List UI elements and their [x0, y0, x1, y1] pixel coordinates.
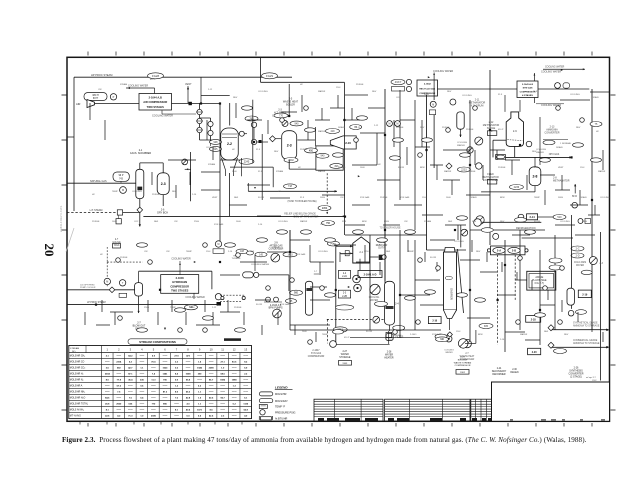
svg-text:2-12: 2-12: [212, 307, 217, 309]
svg-text:2.2: 2.2: [244, 374, 248, 376]
svg-text:95 F: 95 F: [342, 221, 347, 223]
svg-text:2-3: 2-3: [600, 262, 604, 265]
svg-text:AIR: AIR: [76, 102, 80, 106]
svg-text:——: ——: [220, 392, 225, 394]
svg-text:SYN GAS: SYN GAS: [280, 303, 290, 306]
svg-text:1241: 1241: [163, 373, 169, 376]
svg-text:PURGE: PURGE: [300, 149, 308, 151]
svg-text:150#: 150#: [456, 331, 461, 333]
svg-text:2-1647: 2-1647: [312, 350, 320, 352]
svg-text:2-1641 A-E: 2-1641 A-E: [522, 83, 534, 86]
svg-text:95 F: 95 F: [300, 197, 305, 199]
svg-text:99 P: 99 P: [119, 175, 124, 177]
svg-text:——: ——: [209, 374, 214, 376]
svg-text:3.3: 3.3: [175, 362, 179, 364]
svg-text:57.5: 57.5: [117, 386, 122, 388]
svg-text:83.5: 83.5: [232, 362, 237, 364]
svg-text:150#: 150#: [580, 167, 585, 169]
svg-text:H2: H2: [596, 131, 600, 133]
svg-text:27.1: 27.1: [221, 362, 226, 364]
svg-text:2-C: 2-C: [576, 247, 580, 250]
svg-text:PURGE: PURGE: [468, 171, 476, 173]
svg-text:305: 305: [484, 325, 489, 328]
svg-text:REV: REV: [564, 334, 569, 336]
svg-text:2304: 2304: [105, 373, 111, 376]
svg-text:COMPRESSOR: COMPRESSOR: [308, 356, 325, 358]
svg-text:2-1642: 2-1642: [424, 83, 432, 86]
svg-text:940: 940: [295, 122, 300, 125]
svg-text:REBOILER: REBOILER: [376, 245, 388, 247]
svg-text:——: ——: [220, 386, 225, 388]
svg-text:11: 11: [221, 347, 224, 351]
svg-text:(2 STAGE): (2 STAGE): [570, 376, 582, 379]
svg-text:450: 450: [309, 149, 314, 152]
svg-text:6.0: 6.0: [187, 416, 191, 418]
svg-text:DRY BOX: DRY BOX: [157, 212, 168, 215]
svg-text:——: ——: [151, 386, 156, 388]
svg-text:REGEN: REGEN: [510, 372, 519, 374]
svg-text:66.3: 66.3: [186, 392, 191, 394]
svg-text:1.0: 1.0: [198, 398, 202, 400]
svg-text:40.5: 40.5: [186, 409, 191, 412]
svg-text:——: ——: [220, 410, 225, 412]
svg-text:895: 895: [163, 404, 167, 406]
svg-text:6.2: 6.2: [233, 404, 237, 406]
svg-text:PURGE: PURGE: [272, 247, 280, 249]
svg-text:TEMP: TEMP: [112, 191, 118, 193]
svg-text:——: ——: [140, 362, 145, 364]
svg-text:FLOW: FLOW: [366, 331, 372, 333]
svg-text:3: 3: [130, 347, 132, 351]
svg-text:2-2A: 2-2A: [342, 275, 347, 278]
svg-text:PURGE: PURGE: [356, 84, 364, 86]
svg-text:——: ——: [163, 356, 168, 358]
svg-text:DRAIN: DRAIN: [338, 126, 345, 129]
svg-text:2: 2: [118, 347, 120, 351]
svg-text:AIR COMPRESSOR: AIR COMPRESSOR: [143, 100, 167, 104]
svg-text:8.0: 8.0: [106, 380, 110, 382]
svg-text:71.3: 71.3: [128, 416, 133, 418]
svg-text:STEAM: STEAM: [424, 220, 431, 223]
svg-text:FLOW: FLOW: [256, 304, 262, 306]
svg-text:PURGE: PURGE: [152, 194, 160, 196]
svg-text:H2: H2: [378, 164, 382, 166]
svg-text:8.9: 8.9: [175, 392, 179, 394]
svg-text:WATER: WATER: [445, 351, 453, 354]
svg-text:8.4: 8.4: [175, 373, 179, 376]
svg-text:6.1: 6.1: [244, 398, 248, 400]
svg-text:REFRIGERATION: REFRIGERATION: [516, 227, 536, 230]
svg-text:COOLING WATER: COOLING WATER: [185, 296, 205, 299]
svg-text:1640: 1640: [302, 331, 307, 333]
svg-text:2-16: 2-16: [500, 339, 505, 341]
svg-text:CW: CW: [144, 251, 148, 253]
svg-text:95.9: 95.9: [186, 380, 191, 382]
svg-text:——: ——: [151, 410, 156, 412]
svg-text:REV: REV: [233, 97, 238, 99]
svg-text:2.1: 2.1: [106, 356, 110, 358]
svg-text:2-2B: 2-2B: [342, 296, 347, 298]
svg-text:DRAIN: DRAIN: [580, 196, 587, 199]
svg-text:87.1: 87.1: [128, 374, 133, 376]
svg-text:5.6: 5.6: [198, 416, 202, 418]
svg-text:REV: REV: [532, 151, 537, 153]
svg-text:2-16: 2-16: [228, 251, 233, 253]
svg-text:——: ——: [105, 362, 110, 364]
svg-text:——: ——: [186, 368, 191, 370]
svg-text:410 P: 410 P: [498, 129, 504, 131]
svg-text:——: ——: [232, 392, 237, 394]
svg-text:M: M: [106, 281, 108, 284]
svg-text:SYN GAS: SYN GAS: [311, 352, 322, 355]
svg-text:PRESSURE PSIG: PRESSURE PSIG: [275, 411, 295, 414]
svg-text:WATER: WATER: [520, 333, 528, 336]
svg-text:SYN GAS: SYN GAS: [214, 223, 224, 226]
svg-text:COOLING WATER: COOLING WATER: [251, 263, 270, 266]
svg-text:WATER: WATER: [385, 353, 393, 356]
svg-text:——: ——: [163, 386, 168, 388]
svg-text:1640: 1640: [446, 197, 451, 199]
svg-text:22.6: 22.6: [105, 416, 110, 418]
svg-text:WASTE STREAM: WASTE STREAM: [454, 361, 472, 364]
svg-text:1640: 1640: [236, 221, 241, 223]
svg-text:3.6: 3.6: [106, 368, 110, 370]
svg-text:1963: 1963: [342, 363, 348, 365]
svg-text:NH3 GAS: NH3 GAS: [549, 153, 560, 156]
svg-text:——: ——: [243, 356, 248, 358]
svg-text:2-3: 2-3: [161, 182, 166, 186]
svg-text:M: M: [218, 244, 220, 246]
svg-text:M: M: [122, 189, 124, 192]
svg-text:MOLS/HR: MOLS/HR: [275, 393, 287, 396]
svg-text:——: ——: [232, 368, 237, 370]
svg-text:SECONDARY: SECONDARY: [492, 370, 507, 373]
svg-text:DWG: DWG: [320, 197, 325, 199]
svg-text:0.6: 0.6: [140, 386, 144, 388]
svg-text:PURGE: PURGE: [234, 307, 242, 309]
svg-text:TURBINE: TURBINE: [231, 258, 241, 260]
svg-text:——: ——: [243, 386, 248, 388]
svg-text:40.5: 40.5: [209, 397, 214, 400]
svg-text:WATER: WATER: [457, 144, 465, 147]
svg-text:PSIG: PSIG: [144, 307, 149, 309]
svg-text:2245: 2245: [244, 160, 250, 163]
svg-text:756: 756: [326, 222, 331, 225]
svg-text:5.3: 5.3: [198, 386, 202, 388]
svg-text:718: 718: [288, 185, 293, 188]
svg-text:54.2: 54.2: [128, 355, 133, 358]
svg-text:M: M: [432, 104, 434, 106]
svg-text:27.9: 27.9: [174, 356, 179, 358]
svg-text:RECYCLE GAS: RECYCLE GAS: [419, 87, 435, 90]
svg-text:——: ——: [163, 362, 168, 364]
svg-text:2-16: 2-16: [432, 320, 437, 323]
svg-text:BFW: BFW: [362, 221, 367, 223]
svg-text:510: 510: [557, 216, 562, 219]
svg-text:TWO STAGES: TWO STAGES: [171, 289, 189, 293]
svg-text:2-27: 2-27: [342, 351, 347, 353]
svg-text:CW: CW: [340, 197, 344, 199]
svg-text:——: ——: [117, 356, 122, 358]
svg-text:4 STAGES: 4 STAGES: [522, 94, 533, 97]
svg-text:1.0: 1.0: [221, 368, 225, 370]
svg-text:2-?: 2-?: [115, 239, 119, 241]
svg-text:7: 7: [176, 347, 178, 351]
svg-text:WATER: WATER: [370, 299, 378, 302]
svg-text:——: ——: [243, 380, 248, 382]
svg-text:CONVERTER: CONVERTER: [545, 132, 560, 135]
svg-text:8.1: 8.1: [175, 410, 179, 412]
svg-text:1982: 1982: [220, 380, 226, 382]
svg-text:8: 8: [187, 347, 189, 351]
svg-text:410 P: 410 P: [344, 337, 350, 339]
svg-text:WATER: WATER: [576, 264, 584, 267]
svg-text:692: 692: [117, 368, 121, 370]
svg-text:MT % AVG: MT % AVG: [70, 415, 81, 418]
svg-text:2-20: 2-20: [532, 351, 537, 354]
svg-text:COOLING: COOLING: [462, 95, 472, 97]
svg-text:VENT: VENT: [212, 197, 218, 199]
svg-text:MOLS/HR CO₂: MOLS/HR CO₂: [70, 368, 86, 370]
svg-text:4: 4: [141, 347, 143, 351]
svg-text:FG29: FG29: [266, 74, 273, 78]
svg-text:VENT: VENT: [185, 83, 192, 86]
svg-text:100 GPH FEED: 100 GPH FEED: [80, 285, 95, 287]
svg-text:——: ——: [128, 386, 133, 388]
svg-text:TEMP: TEMP: [322, 334, 328, 336]
svg-text:——: ——: [232, 356, 237, 358]
svg-text:DWG: DWG: [558, 197, 563, 199]
svg-text:2-1641: 2-1641: [410, 334, 417, 336]
svg-text:PURGE: PURGE: [92, 221, 100, 223]
svg-text:MOLS/HR N₂: MOLS/HR N₂: [70, 380, 84, 382]
svg-text:TWO STAGES: TWO STAGES: [147, 105, 165, 109]
svg-text:REFORMER: REFORMER: [492, 374, 505, 376]
svg-text:26.8: 26.8: [105, 404, 110, 406]
svg-text:42.5: 42.5: [209, 415, 214, 418]
svg-text:2-16: 2-16: [258, 224, 263, 226]
svg-text:1.1: 1.1: [198, 404, 202, 406]
svg-text:COOLING: COOLING: [560, 221, 570, 223]
svg-text:433 P: 433 P: [395, 81, 402, 84]
svg-text:900: 900: [294, 292, 299, 295]
svg-text:2-2: 2-2: [343, 273, 347, 275]
svg-text:2030: 2030: [151, 416, 157, 418]
svg-text:2-24: 2-24: [497, 368, 502, 370]
svg-text:COOLING WATER: COOLING WATER: [433, 70, 453, 73]
svg-text:5.9: 5.9: [175, 380, 179, 382]
svg-text:CW: CW: [166, 251, 170, 253]
svg-text:——: ——: [220, 404, 225, 406]
svg-text:1.1: 1.1: [140, 368, 144, 370]
svg-text:2-B: 2-B: [512, 249, 516, 253]
svg-text:WATER: WATER: [598, 170, 606, 173]
svg-text:STEAM: STEAM: [208, 163, 215, 166]
svg-text:——: ——: [117, 398, 122, 400]
svg-text:STREAM COMPOSITIONS: STREAM COMPOSITIONS: [139, 340, 176, 344]
svg-text:2-1: 2-1: [359, 250, 363, 254]
svg-text:HP PROC STEAM: HP PROC STEAM: [91, 73, 112, 77]
svg-text:2-19: 2-19: [582, 293, 588, 296]
svg-text:12: 12: [233, 347, 236, 351]
svg-text:DRAIN: DRAIN: [470, 196, 477, 199]
svg-text:6.9: 6.9: [244, 368, 248, 370]
svg-text:0.2: 0.2: [175, 368, 179, 370]
svg-text:COOLING: COOLING: [600, 197, 610, 199]
svg-text:770: 770: [279, 114, 284, 117]
svg-text:WATER: WATER: [536, 151, 544, 154]
svg-text:FG28: FG28: [152, 74, 159, 78]
svg-text:2454: 2454: [322, 207, 328, 210]
svg-text:2-12: 2-12: [374, 125, 379, 127]
svg-text:——: ——: [243, 392, 248, 394]
svg-text:2-16: 2-16: [192, 194, 197, 196]
svg-text:1.1: 1.1: [198, 392, 202, 394]
svg-text:——: ——: [117, 374, 122, 376]
svg-text:TEMP °F: TEMP °F: [275, 406, 286, 409]
svg-text:COOLING: COOLING: [258, 91, 268, 93]
svg-text:——: ——: [209, 392, 214, 394]
svg-text:1.0: 1.0: [140, 416, 144, 418]
svg-text:2060: 2060: [116, 404, 122, 406]
svg-text:95 F: 95 F: [498, 94, 503, 96]
svg-text:——: ——: [140, 410, 145, 412]
svg-text:REV: REV: [476, 251, 481, 253]
svg-text:WATER: WATER: [318, 130, 326, 133]
svg-text:——: ——: [209, 386, 214, 388]
svg-text:940: 940: [321, 155, 326, 158]
svg-text:AMMONIA TO STORAGE: AMMONIA TO STORAGE: [573, 342, 600, 345]
svg-text:COOLING: COOLING: [206, 147, 216, 149]
svg-text:SYN GAS: SYN GAS: [296, 253, 306, 256]
svg-text:H2: H2: [300, 84, 304, 86]
svg-text:——: ——: [163, 410, 168, 412]
svg-text:1671: 1671: [197, 410, 203, 412]
svg-text:At BTU/HR: At BTU/HR: [275, 417, 288, 420]
svg-text:——: ——: [174, 404, 179, 406]
svg-text:PURGE: PURGE: [380, 197, 388, 199]
svg-text:SYN GAS: SYN GAS: [432, 333, 442, 336]
svg-text:COOLING: COOLING: [457, 142, 467, 144]
svg-text:CW: CW: [98, 89, 102, 91]
svg-text:REV: REV: [274, 151, 279, 153]
svg-text:VENT: VENT: [558, 167, 564, 169]
svg-text:MOLS/HR CH₄: MOLS/HR CH₄: [70, 356, 85, 358]
svg-text:2-A: 2-A: [497, 249, 501, 253]
svg-text:150#: 150#: [206, 251, 211, 253]
svg-text:HEATER: HEATER: [384, 356, 393, 359]
svg-text:——: ——: [128, 410, 133, 412]
svg-text:PURGE: PURGE: [338, 167, 346, 169]
svg-text:419: 419: [331, 130, 336, 133]
svg-text:35.4: 35.4: [128, 379, 133, 382]
svg-text:BFW: BFW: [500, 197, 505, 199]
svg-text:1962: 1962: [460, 372, 466, 374]
svg-text:COOLING WATER: COOLING WATER: [545, 66, 565, 69]
svg-text:——: ——: [140, 392, 145, 394]
svg-text:PUMP COOLER: PUMP COOLER: [80, 287, 96, 289]
svg-text:MOLS/HR CO: MOLS/HR CO: [70, 362, 85, 364]
svg-text:FLOW: FLOW: [258, 197, 264, 199]
svg-text:——: ——: [105, 386, 110, 388]
svg-text:SYN GAS: SYN GAS: [400, 196, 410, 199]
svg-text:7.6: 7.6: [117, 392, 121, 394]
svg-text:——: ——: [232, 398, 237, 400]
svg-text:——: ——: [209, 356, 214, 358]
svg-text:——: ——: [128, 392, 133, 394]
svg-text:NATURAL GAS: NATURAL GAS: [90, 180, 107, 183]
svg-text:2-1646: 2-1646: [176, 276, 185, 280]
svg-text:CW: CW: [404, 221, 408, 223]
svg-text:H2: H2: [298, 167, 302, 169]
svg-text:REV: REV: [372, 91, 377, 93]
svg-text:NH3: NH3: [386, 251, 391, 253]
svg-text:1058: 1058: [186, 374, 192, 376]
svg-text:WATER: WATER: [318, 90, 326, 93]
svg-text:1640: 1640: [232, 171, 237, 173]
svg-text:10: 10: [210, 347, 213, 351]
svg-text:5.2: 5.2: [129, 362, 133, 364]
svg-text:REV: REV: [447, 91, 452, 93]
svg-text:2-29: 2-29: [460, 357, 465, 359]
svg-text:4.2: 4.2: [117, 415, 121, 418]
svg-text:700: 700: [163, 380, 167, 382]
svg-text:2-1644 A,B: 2-1644 A,B: [149, 95, 162, 99]
svg-text:MOLS/HR NH₃: MOLS/HR NH₃: [70, 392, 85, 394]
svg-text:NH3: NH3: [448, 221, 453, 223]
svg-text:PURGE: PURGE: [466, 129, 474, 131]
svg-text:PURGE: PURGE: [396, 127, 404, 129]
svg-text:85.7: 85.7: [209, 380, 214, 382]
svg-text:2-2: 2-2: [227, 142, 232, 146]
svg-text:42.7: 42.7: [128, 367, 133, 370]
svg-text:77.8: 77.8: [117, 380, 122, 382]
svg-text:LEGEND: LEGEND: [275, 386, 288, 390]
svg-text:H2: H2: [92, 194, 96, 196]
svg-text:——: ——: [232, 410, 237, 412]
svg-text:1.3: 1.3: [233, 386, 237, 388]
svg-text:2-4: 2-4: [395, 302, 399, 306]
svg-text:STEAM: STEAM: [276, 170, 283, 173]
svg-text:TANK: TANK: [114, 244, 120, 247]
svg-text:——: ——: [163, 416, 168, 418]
svg-text:TEMP: TEMP: [186, 251, 192, 253]
svg-text:95 F: 95 F: [533, 91, 538, 93]
svg-text:COOLING WATER: COOLING WATER: [171, 258, 191, 261]
svg-text:908: 908: [214, 141, 219, 144]
svg-text:7.0: 7.0: [129, 398, 133, 400]
svg-text:2233: 2233: [461, 168, 467, 171]
svg-text:2.3: 2.3: [221, 416, 225, 418]
svg-text:1: 1: [107, 347, 109, 351]
svg-text:2-3: 2-3: [343, 293, 347, 295]
svg-text:2-18: 2-18: [531, 318, 537, 321]
svg-text:635: 635: [129, 404, 133, 406]
svg-text:1023: 1023: [163, 368, 169, 370]
svg-text:1640: 1640: [112, 221, 117, 223]
svg-text:WATER: WATER: [444, 170, 452, 173]
svg-text:——: ——: [117, 410, 122, 412]
svg-text:DRAIN: DRAIN: [592, 96, 599, 99]
svg-text:1945: 1945: [197, 367, 203, 370]
svg-text:BFW: BFW: [478, 334, 483, 336]
svg-text:6.4: 6.4: [140, 397, 144, 400]
svg-text:CW: CW: [174, 221, 178, 223]
svg-text:MOLS/HR H₂O: MOLS/HR H₂O: [70, 398, 86, 400]
svg-text:COOLING: COOLING: [278, 221, 288, 223]
svg-text:GASIFIER: GASIFIER: [449, 288, 452, 300]
svg-text:11.3: 11.3: [151, 380, 156, 382]
